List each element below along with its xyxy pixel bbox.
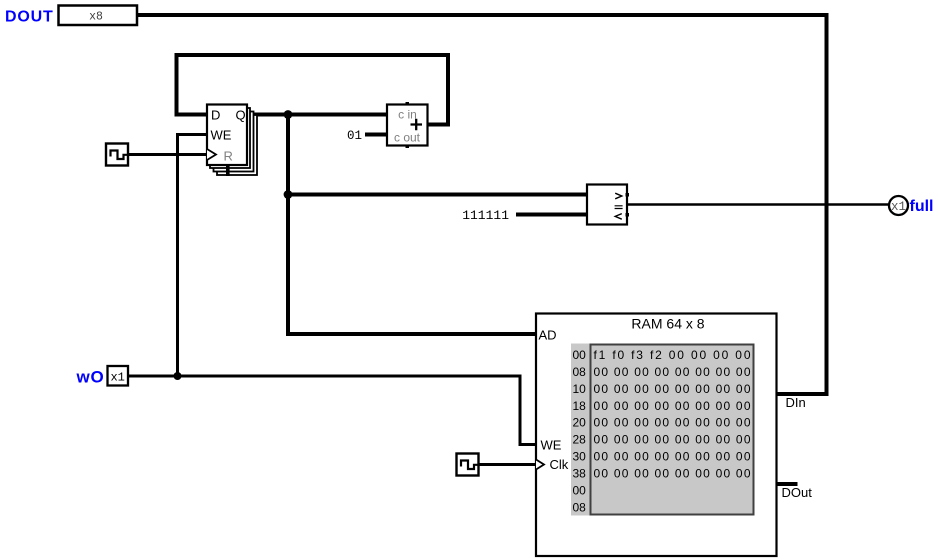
svg-text:00 00 00 00 00 00 00 00: 00 00 00 00 00 00 00 00 xyxy=(594,433,751,447)
wire clock 1 to register clock input xyxy=(128,153,207,156)
svg-text:DOut: DOut xyxy=(782,485,813,500)
svg-text:x1: x1 xyxy=(110,371,124,385)
svg-text:28: 28 xyxy=(573,433,587,447)
comparator U3 xyxy=(587,185,629,225)
node junction at comparator branch xyxy=(284,190,293,199)
clock CLK1 xyxy=(106,144,128,166)
svg-text:RAM 64 x 8: RAM 64 x 8 xyxy=(631,316,704,332)
wire wO to RAM WE xyxy=(128,376,536,445)
svg-text:Clk: Clk xyxy=(550,457,569,472)
adder U2 xyxy=(387,102,428,148)
svg-text:18: 18 xyxy=(573,399,587,413)
svg-text:01: 01 xyxy=(347,129,362,143)
wire feedback bus: adder sum to register D xyxy=(177,55,449,125)
input pin wO body (x1) xyxy=(108,366,129,386)
wire constant 01 to adder input b xyxy=(347,129,387,143)
svg-text:x1: x1 xyxy=(891,200,906,214)
svg-text:111111: 111111 xyxy=(462,208,509,223)
svg-text:08: 08 xyxy=(573,500,587,514)
wire bus to comparator input a xyxy=(288,193,587,197)
svg-text:DOUT: DOUT xyxy=(5,9,54,26)
svg-text:00 00 00 00 00 00 00 00: 00 00 00 00 00 00 00 00 xyxy=(594,416,751,430)
svg-text:c out: c out xyxy=(394,131,421,145)
svg-text:AD: AD xyxy=(539,328,557,343)
svg-text:R: R xyxy=(224,149,233,164)
svg-text:DIn: DIn xyxy=(786,395,806,410)
register U1 (counter flip-flops, stacked) xyxy=(207,105,257,177)
svg-text:Q: Q xyxy=(236,108,246,123)
svg-text:wO: wO xyxy=(76,368,105,387)
RAM pin DOut stub xyxy=(776,484,812,500)
svg-text:00 00 00 00 00 00 00 00: 00 00 00 00 00 00 00 00 xyxy=(594,382,751,396)
output pin DOUT body (x8) xyxy=(59,6,138,26)
svg-text:x8: x8 xyxy=(89,11,103,24)
node junction at Q xyxy=(284,110,293,119)
wire comparator output to pin full xyxy=(627,203,889,206)
output pin full xyxy=(889,196,934,215)
svg-text:00: 00 xyxy=(573,484,587,498)
svg-text:00 00 00 00 00 00 00 00: 00 00 00 00 00 00 00 00 xyxy=(594,399,751,413)
node junction at wO xyxy=(174,372,182,380)
wire DOUT bus to RAM DIn xyxy=(137,15,827,394)
clock CLK2 xyxy=(457,454,479,476)
svg-text:c in: c in xyxy=(398,108,417,122)
RAM memory contents grid xyxy=(571,344,754,516)
wire register Q to adder input a xyxy=(247,113,387,117)
svg-text:D: D xyxy=(211,108,220,123)
svg-text:20: 20 xyxy=(573,416,587,430)
svg-text:30: 30 xyxy=(573,450,587,464)
wire clock 2 to RAM Clk xyxy=(479,463,537,466)
RAM U4 body xyxy=(536,314,777,557)
svg-text:00 00 00 00 00 00 00 00: 00 00 00 00 00 00 00 00 xyxy=(594,450,751,464)
wire bus down from Q to comparator and RAM AD xyxy=(288,115,536,335)
svg-text:WE: WE xyxy=(541,438,562,453)
svg-text:38: 38 xyxy=(573,467,587,481)
svg-text:00 00 00 00 00 00 00 00: 00 00 00 00 00 00 00 00 xyxy=(594,467,751,481)
RAM pin Clk xyxy=(536,457,569,472)
svg-text:00 00 00 00 00 00 00 00: 00 00 00 00 00 00 00 00 xyxy=(594,365,751,379)
svg-text:full: full xyxy=(910,198,934,215)
svg-text:WE: WE xyxy=(211,128,232,143)
wire wO branch up to register WE xyxy=(178,135,208,377)
svg-text:08: 08 xyxy=(573,365,587,379)
svg-text:00: 00 xyxy=(573,348,587,362)
svg-text:10: 10 xyxy=(573,382,587,396)
wire constant 111111 to comparator input b xyxy=(462,208,587,223)
svg-text:f1 f0 f3 f2 00 00 00 00: f1 f0 f3 f2 00 00 00 00 xyxy=(594,348,751,362)
